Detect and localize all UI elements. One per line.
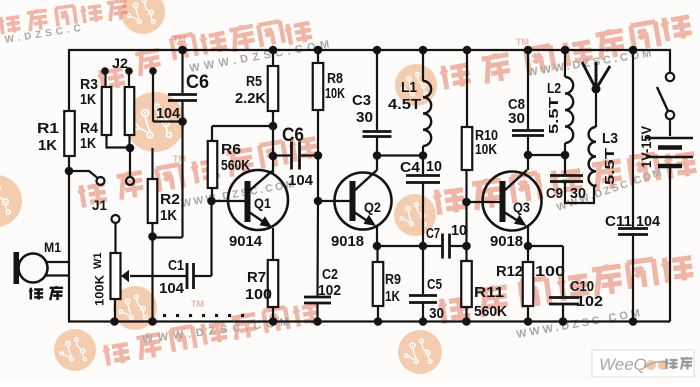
svg-text:5.5T: 5.5T xyxy=(546,97,561,134)
wire: node down to Q2 base node xyxy=(317,156,319,202)
svg-text:R7: R7 xyxy=(247,270,266,286)
svg-text:R4: R4 xyxy=(80,121,98,137)
wire: C1 up to Q1 base node xyxy=(210,201,212,276)
junction: C6 bottom node xyxy=(178,117,187,126)
wire: emitter node to C10 xyxy=(528,245,563,247)
wire: rail to switch xyxy=(669,50,671,73)
svg-text:C3: C3 xyxy=(352,93,371,109)
wire: rail to C11 xyxy=(632,50,634,227)
capacitor C5 xyxy=(409,294,437,297)
svg-text:30: 30 xyxy=(570,186,586,202)
capacitor C3 xyxy=(363,130,392,133)
wire: R8 bottom xyxy=(317,110,319,156)
junction: ground at C10 xyxy=(559,317,568,326)
wire: mic lower terminal xyxy=(46,274,69,276)
wire: node to C7 xyxy=(423,245,443,247)
resistor R12 xyxy=(523,262,534,306)
junction: top rail C8 tap xyxy=(524,46,533,55)
wire: R6 bottom lead xyxy=(211,188,213,201)
wire: R11 to ground xyxy=(465,307,467,322)
resistor R7 xyxy=(268,260,279,307)
wire: J2 pad2 to R4 xyxy=(128,71,130,87)
watermark layer (decorative, under schematic) xyxy=(121,0,165,34)
svg-text:102: 102 xyxy=(576,294,603,310)
svg-text:C10: C10 xyxy=(570,279,594,295)
svg-text:TM: TM xyxy=(191,299,204,309)
wire: down to C10 xyxy=(562,246,564,296)
svg-text:100: 100 xyxy=(245,287,272,303)
wire: base node to Q2 xyxy=(318,200,350,202)
svg-text:R8: R8 xyxy=(327,71,343,87)
capacitor C11 xyxy=(618,227,648,230)
svg-text:104: 104 xyxy=(636,214,660,230)
svg-text:C1: C1 xyxy=(168,258,184,274)
svg-text:TM: TM xyxy=(516,37,529,47)
svg-text:L2: L2 xyxy=(547,81,561,97)
junction: ground at R12 xyxy=(524,317,533,326)
junction: ground at R9 xyxy=(374,317,383,326)
svg-text:10K: 10K xyxy=(325,86,345,102)
switch S blade xyxy=(657,87,668,111)
svg-text:10: 10 xyxy=(451,223,467,239)
wire: node to C5 xyxy=(422,246,424,294)
wire: R9 to ground xyxy=(377,306,379,322)
svg-text:L3: L3 xyxy=(602,131,618,147)
svg-text:J2: J2 xyxy=(112,55,128,71)
wire: C10 to ground xyxy=(562,305,564,322)
jack J1 contact b xyxy=(126,177,134,185)
svg-text:R2: R2 xyxy=(160,192,180,208)
junction: C4/C5/C7 node xyxy=(419,242,428,251)
svg-text:R6: R6 xyxy=(221,142,241,158)
wire: emitter to R9 xyxy=(376,246,378,262)
junction: top rail R5 tap xyxy=(269,46,278,55)
wire: node to R11 xyxy=(465,246,467,261)
svg-text:Q3: Q3 xyxy=(513,199,530,215)
junction: ground at C2 xyxy=(313,317,322,326)
svg-text:C11: C11 xyxy=(605,214,632,230)
svg-text:L1: L1 xyxy=(401,80,417,96)
wire: J1 to W1 top xyxy=(114,223,116,253)
wire: C7 to Q3 base branch xyxy=(450,245,467,247)
svg-text:30: 30 xyxy=(508,111,525,127)
junction: top rail C3 tap xyxy=(373,46,382,55)
junction: Q2 base node xyxy=(314,197,323,206)
capacitor C7 xyxy=(441,234,444,259)
resistor R3 xyxy=(102,87,112,135)
wire: node down to J1 contact xyxy=(129,148,131,177)
junction: L1/C4 node xyxy=(419,151,428,160)
wire: C6 bottom xyxy=(181,101,183,122)
wire: Q1 collector to C6b xyxy=(273,154,292,156)
switch S contact bottom xyxy=(666,111,674,119)
junction: R2/C6 bottom node xyxy=(148,232,157,241)
wire: C6 node to R2 bottom node xyxy=(153,236,183,238)
junction: top rail C6 tap xyxy=(178,46,187,55)
svg-text:C4: C4 xyxy=(400,160,420,176)
svg-text:30: 30 xyxy=(356,110,373,126)
svg-text:R5: R5 xyxy=(246,74,262,90)
junction: C7/R11 node xyxy=(462,242,471,251)
junction: L2/C9 node xyxy=(561,151,570,160)
wire: Q2 collector up xyxy=(376,156,378,170)
svg-text:R9: R9 xyxy=(385,272,401,288)
wire: R5 bottom xyxy=(272,111,274,126)
capacitor C6 (second) xyxy=(290,142,293,170)
wire: R2 bottom xyxy=(151,223,153,237)
wire: R7 to ground xyxy=(272,307,274,322)
transistor Q1 xyxy=(228,170,288,230)
svg-text:J1: J1 xyxy=(92,197,107,213)
wire: node to C9 xyxy=(564,155,566,174)
potentiometer W1 wiper arrow xyxy=(121,270,129,282)
svg-text:102: 102 xyxy=(318,283,341,299)
wire: battery to ground rail xyxy=(669,168,671,322)
junction: Q3 collector node xyxy=(524,151,533,160)
capacitor C10 xyxy=(549,296,579,299)
wire: rail to C3 xyxy=(376,50,378,130)
svg-text:9018: 9018 xyxy=(331,233,364,250)
wire: C6 node down xyxy=(181,122,183,238)
wire: mic upper terminal xyxy=(47,261,70,263)
svg-text:1K: 1K xyxy=(80,136,96,152)
wire: emitter node to C4/C5 node xyxy=(377,245,423,247)
wire: C5 to ground xyxy=(422,303,424,322)
wire: rail to C8 xyxy=(527,50,529,129)
wire: bottom ground rail xyxy=(68,320,670,322)
wire: R3 to node xyxy=(106,146,131,148)
wire: R10 bottom xyxy=(465,170,467,202)
junction: Q2 emitter node xyxy=(373,242,382,251)
junction: top rail L2 tap xyxy=(561,46,570,55)
battery B1 xyxy=(646,137,693,140)
wire: J2 pad1 to R3 xyxy=(104,71,106,87)
decorative crease dots intentionally drawn as junction-free marks xyxy=(163,314,166,317)
junction: antenna feed xyxy=(592,85,601,94)
resistor R1 xyxy=(64,111,75,156)
microphone M1 xyxy=(14,252,20,284)
svg-text:1K: 1K xyxy=(385,289,400,305)
wire: R3 bottom xyxy=(105,135,107,148)
svg-text:Q1: Q1 xyxy=(254,195,271,211)
capacitor C6 (first) xyxy=(168,93,197,96)
wire: rail to R8 xyxy=(317,50,319,63)
wire: node to ground rail xyxy=(151,237,153,322)
svg-text:9018: 9018 xyxy=(490,233,523,250)
wire: J2 pad3 to C6 node xyxy=(153,120,183,122)
inductor L2 xyxy=(565,77,573,143)
svg-text:9014: 9014 xyxy=(229,233,263,250)
junction: ground at W1 xyxy=(110,317,119,326)
svg-text:Q2: Q2 xyxy=(364,199,381,215)
junction: R3/R4/J1/R2 node xyxy=(126,144,135,153)
wire: C4 bottom to emitter bus xyxy=(422,183,424,246)
potentiometer W1 body xyxy=(111,253,121,299)
wire: R4 bottom xyxy=(128,135,130,148)
svg-text:10: 10 xyxy=(426,159,442,175)
svg-text:C7: C7 xyxy=(426,226,440,242)
transistor Q2 xyxy=(335,173,392,230)
junction: top rail C11 tap xyxy=(629,46,638,55)
wire: down to C6b node xyxy=(272,126,274,156)
wire: base node to Q1 xyxy=(212,200,246,202)
wire: collector node bus xyxy=(528,154,565,156)
junction: Q1 base node xyxy=(207,197,216,206)
jack J1 contact a xyxy=(97,177,105,185)
junction: top rail R8 tap xyxy=(314,46,323,55)
wire: C3 bottom xyxy=(376,137,378,156)
capacitor C2 xyxy=(304,296,331,299)
junction: top rail R10 tap xyxy=(463,46,472,55)
jumper J2 pad 1 xyxy=(101,67,109,75)
wire: node to C4 xyxy=(422,156,424,175)
svg-text:10K: 10K xyxy=(475,142,497,158)
svg-text:104: 104 xyxy=(159,281,184,297)
junction: R8/C6b node xyxy=(314,151,323,160)
jumper J2 pad 3 xyxy=(149,67,157,75)
wire: L2 bottom xyxy=(564,143,566,155)
wire: C9 bottom routed around value box to L3 xyxy=(565,182,597,203)
svg-text:C6: C6 xyxy=(282,125,304,146)
svg-text:100K: 100K xyxy=(93,275,107,306)
capacitor C8 xyxy=(512,129,544,132)
resistor R11 xyxy=(461,261,472,307)
wire: wiper to C1 xyxy=(130,275,186,277)
wire: emitter to R12 xyxy=(527,246,529,262)
svg-text:560K: 560K xyxy=(474,304,507,320)
svg-text:2.2K: 2.2K xyxy=(235,91,267,107)
jack J1 contact c xyxy=(112,215,120,223)
WeeQoo watermark badge xyxy=(592,350,694,377)
svg-text:1K: 1K xyxy=(80,92,96,108)
wire: Q1 emitter down xyxy=(272,228,274,260)
switch S contact top xyxy=(666,73,674,81)
inductor L1 xyxy=(423,81,431,146)
wire: C11 to ground xyxy=(632,235,634,322)
wire: rail to J1 contact xyxy=(71,171,97,178)
svg-text:104: 104 xyxy=(156,105,181,122)
resistor R2 xyxy=(148,179,158,223)
junction: R5/R6 node xyxy=(269,122,278,131)
transistor Q3 xyxy=(483,172,542,231)
wire: C1 right xyxy=(194,275,212,277)
svg-text:M1: M1 xyxy=(44,239,61,255)
capacitor C1 xyxy=(186,263,189,289)
wire: base node to Q3 xyxy=(467,201,501,203)
junction: ground at C11 xyxy=(629,317,638,326)
label: mic Chinese caption 话筒 xyxy=(29,288,43,300)
wire: switch to battery xyxy=(669,119,671,136)
junction: ground at R11 xyxy=(462,317,471,326)
svg-text:C5: C5 xyxy=(427,277,442,293)
svg-text:30: 30 xyxy=(429,306,444,322)
svg-text:TM: TM xyxy=(173,34,186,44)
resistor R9 xyxy=(373,262,384,306)
wire: rail to R10 xyxy=(466,50,468,127)
junction: ground at x152 xyxy=(148,317,157,326)
svg-text:1K: 1K xyxy=(38,138,58,154)
wire: top rail to C6 xyxy=(181,50,183,93)
svg-text:WeeQ: WeeQ xyxy=(599,355,647,374)
svg-text:C6: C6 xyxy=(186,72,209,93)
svg-text:C2: C2 xyxy=(322,267,338,283)
wire: base node down to C2 xyxy=(316,201,319,296)
resistor R6 xyxy=(208,141,218,188)
wire: base node down to C7 xyxy=(465,202,467,246)
wire: C2 to ground xyxy=(316,304,318,322)
wire: Q3 collector up xyxy=(527,155,529,170)
wire: R5 node to R6 top xyxy=(212,125,273,127)
junction: Q3 emitter node xyxy=(524,242,533,251)
junction: Q1 collector node xyxy=(269,152,278,161)
inductor L3 xyxy=(589,127,596,186)
svg-text:104: 104 xyxy=(288,172,314,189)
svg-text:R11: R11 xyxy=(474,285,504,301)
wire: node to Q1 collector xyxy=(272,156,274,173)
junction: ground at C5 xyxy=(419,317,428,326)
svg-text:R3: R3 xyxy=(80,77,98,93)
junction: ground at R7 xyxy=(269,317,278,326)
wire: rail to L1 xyxy=(422,50,424,81)
wire: W1 bottom to ground xyxy=(114,299,116,322)
svg-text:TM: TM xyxy=(173,154,186,164)
wire: Q2 emitter down xyxy=(376,226,378,246)
wire: top supply rail (V+) xyxy=(68,49,671,51)
svg-text:R1: R1 xyxy=(37,121,59,137)
jumper J2 pad 2 xyxy=(125,67,133,75)
antenna xyxy=(582,62,596,89)
wire: L1 bottom xyxy=(422,146,424,156)
junction: Q3 base node xyxy=(462,198,471,207)
capacitor C4 xyxy=(406,174,440,177)
svg-text:4.5T: 4.5T xyxy=(388,97,421,113)
svg-text:1K: 1K xyxy=(160,208,177,224)
wire: rail to R5 xyxy=(272,50,274,66)
wire: C8 bottom xyxy=(527,136,529,155)
wire: R6 top lead xyxy=(211,126,213,141)
wire: R12 to ground xyxy=(527,306,529,322)
wire: J2 pad3 down xyxy=(152,71,154,122)
svg-text:5.5T: 5.5T xyxy=(602,148,617,185)
resistor R8 xyxy=(313,63,324,110)
wire: node to R2 xyxy=(151,148,153,179)
capacitor C9 xyxy=(550,174,583,177)
junction: Q2 collector node xyxy=(373,151,382,160)
junction: top rail L1 tap xyxy=(419,46,428,55)
svg-text:100: 100 xyxy=(535,264,565,280)
svg-text:1V-15V: 1V-15V xyxy=(639,126,654,168)
svg-text:W1: W1 xyxy=(92,253,104,270)
wire: C6b to R8 node xyxy=(300,154,319,156)
wire: antenna to L3 xyxy=(595,89,597,127)
junction: left rail to J1 xyxy=(65,167,74,176)
resistor R4 xyxy=(125,87,135,135)
wire: Q3 emitter down xyxy=(527,226,529,246)
wire: left rail xyxy=(68,49,70,322)
wire: Q2 collector node to L1 node xyxy=(377,154,423,156)
resistor R5 xyxy=(268,66,279,111)
resistor R10 xyxy=(462,127,473,170)
svg-text:R12: R12 xyxy=(496,264,523,280)
svg-text:C9: C9 xyxy=(546,186,563,202)
wire: rail to L2 xyxy=(564,50,566,77)
